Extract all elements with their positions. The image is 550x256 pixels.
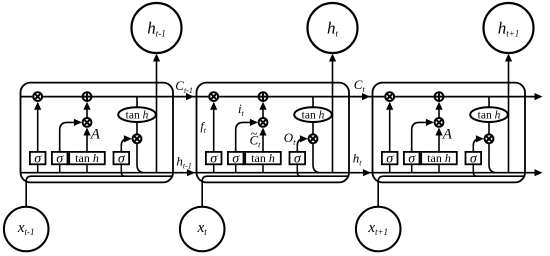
wire: h bus hook down to x bus cell 2 [297,173,301,177]
wire: input gate curve cell 2 [236,122,254,151]
wire: h bus hook down to x bus cell 1 [121,173,125,177]
wire: forget gate riser cell 1 [37,108,39,152]
svg-text:~: ~ [251,127,258,141]
wire: sigma2 stub to bus cell 3 [411,164,413,172]
arrowhead: input gate into input multiply cell 3 [426,119,434,126]
svg-text:Ct: Ct [354,77,366,94]
wire: candidate riser lower cell 1 [86,133,88,152]
wire: tanh ellipse to output multiply cell 1 [136,122,138,134]
arrowhead: h(t) into cell 3 [363,169,371,176]
svg-text:ht: ht [353,151,363,168]
gate box sigma2 (input gate) cell 1 [52,152,68,164]
wire: output multiply down-curve to h line cell 2 [313,143,321,173]
wire: x input bus inside cell 2 [202,176,347,207]
output circle h_t cell 2 [308,3,358,53]
arrowhead: C(t+1) output at right edge [535,93,543,100]
arrowhead: h(t+1) output at right edge [535,169,543,176]
svg-text:σ: σ [232,151,240,166]
arrowhead: candidate into add node cell 2 [259,102,266,110]
svg-text:Ct-1: Ct-1 [175,78,193,95]
wire: output gate curve cell 3 [473,139,480,152]
svg-text:σ: σ [210,151,218,166]
multiply node (input x candidate) cell 3 [435,118,444,127]
gate box sigma2 (input gate) cell 3 [404,152,420,164]
wire: candidate riser lower cell 3 [438,133,440,152]
activation tanh ellipse cell 1 [118,107,156,122]
wire: candidate riser lower cell 2 [262,133,264,152]
gate box sigma1 (forget gate) cell 1 [30,152,46,164]
svg-text:tan h: tan h [251,151,275,165]
arrowhead: candidate into input multiply cell 2 [259,128,266,136]
arrowhead: h riser into top circle cell 1 [153,54,160,62]
wire: sigma3 stub to bus cell 2 [296,164,298,172]
svg-text:σ: σ [34,151,42,166]
add node on C line cell 1 [83,92,92,101]
LSTM cell 1 body box [21,83,174,183]
svg-text:ft: ft [200,119,206,135]
gate box sigma1 (forget gate) cell 2 [206,152,222,164]
wire: h output riser to circle cell 2 [332,61,334,173]
svg-text:tan h: tan h [478,110,501,122]
wire: sigma2 stub to bus cell 1 [59,164,61,172]
wire: tanh ellipse to output multiply cell 2 [312,122,314,134]
wire: output multiply down-curve to h line cell 1 [137,143,145,173]
arrowhead: output gate into output multiply cell 1 [124,135,132,142]
LSTM cell 3 body box [373,83,526,183]
gate box tanh (candidate) cell 2 [245,152,281,164]
arrowhead: candidate into add node cell 1 [83,102,90,110]
gate box sigma3 (output gate) cell 3 [466,152,482,164]
arrowhead: candidate into input multiply cell 3 [435,128,442,136]
arrowhead: C(t-1) into cell 2 [186,93,194,100]
wire: forget gate riser cell 2 [213,108,215,152]
svg-text:tan h: tan h [75,151,99,165]
wire: sigma3 stub to bus cell 1 [120,164,122,172]
svg-text:A: A [90,126,101,142]
multiply node (output gate) cell 1 [133,134,142,143]
wire: C to tanh ellipse cell 2 [312,97,314,108]
svg-text:σ: σ [386,151,394,166]
svg-text:ht-1: ht-1 [176,154,191,171]
wire: candidate riser upper cell 3 [438,108,440,119]
wire: output multiply down-curve to h line cell 3 [489,143,497,173]
input circle x_t+1 cell 3 [356,207,401,252]
gate box sigma3 (output gate) cell 2 [290,152,306,164]
activation tanh ellipse cell 3 [470,107,508,122]
gate box tanh (candidate) cell 3 [421,152,457,164]
arrowhead: forget riser into multiply node cell 3 [386,102,393,110]
input circle x_t-1 cell 1 [4,207,49,252]
svg-text:tan h: tan h [302,110,325,122]
wire: output gate curve cell 2 [297,139,304,152]
arrowhead: output gate into output multiply cell 3 [476,135,484,142]
wire: tanh stub to bus cell 1 [86,164,88,172]
arrowhead: h riser into top circle cell 2 [329,54,336,62]
output circle h_t-1 cell 1 [132,3,182,53]
wire: sigma2 stub to bus cell 2 [235,164,237,172]
arrowhead: C(t) into cell 3 [362,93,370,100]
gate box sigma3 (output gate) cell 1 [114,152,130,164]
multiply node (input x candidate) cell 2 [259,118,268,127]
wire: forget gate riser cell 3 [389,108,391,152]
arrowhead: input gate into input multiply cell 2 [250,119,258,126]
multiply node (forget) on C line cell 3 [385,92,394,101]
multiply node (output gate) cell 3 [485,134,494,143]
svg-text:σ: σ [470,151,478,166]
wire: sigma3 stub to bus cell 3 [472,164,474,172]
arrowhead: candidate into input multiply cell 1 [83,128,90,136]
arrowhead: h riser into top circle cell 3 [505,54,512,62]
arrowhead: h(t-1) into cell 2 [187,169,195,176]
add node on C line cell 3 [435,92,444,101]
svg-text:it: it [238,101,245,118]
wire: candidate riser upper cell 2 [262,108,264,119]
gate box sigma1 (forget gate) cell 3 [382,152,398,164]
wire: x input bus inside cell 3 [378,176,523,207]
wire: hidden state line h (runs through all cells) [21,172,542,174]
svg-text:A: A [442,126,453,142]
wire: input gate curve cell 1 [60,122,78,151]
wire: sigma1 stub to bus cell 2 [213,164,215,172]
LSTM cell 2 body box [197,83,350,183]
svg-text:σ: σ [408,151,416,166]
arrowhead: forget riser into multiply node cell 2 [210,102,217,110]
wire: output gate curve cell 1 [121,139,128,152]
multiply node (forget) on C line cell 2 [209,92,218,101]
arrowhead: forget riser into multiply node cell 1 [34,102,41,110]
input circle x_t cell 2 [180,207,225,252]
svg-text:tan h: tan h [427,151,451,165]
wire: input gate curve cell 3 [412,122,430,151]
wire: h output riser to circle cell 1 [156,61,158,173]
wire: tanh ellipse to output multiply cell 3 [488,122,490,134]
wire: h output riser to circle cell 3 [508,61,510,173]
multiply node (input x candidate) cell 1 [83,118,92,127]
svg-text:σ: σ [118,151,126,166]
wire: tanh stub to bus cell 2 [262,164,264,172]
wire: sigma1 stub to bus cell 1 [37,164,39,172]
activation tanh ellipse cell 2 [294,107,332,122]
wire: cell state line C (runs through all cells) [21,96,542,98]
add node on C line cell 2 [259,92,268,101]
wire: h bus hook down to x bus cell 3 [473,173,477,177]
arrowhead: candidate into add node cell 3 [435,102,442,110]
multiply node (forget) on C line cell 1 [33,92,42,101]
arrowhead: output gate into output multiply cell 2 [300,135,308,142]
wire: candidate riser upper cell 1 [86,108,88,119]
gate box sigma2 (input gate) cell 2 [228,152,244,164]
svg-text:σ: σ [56,151,64,166]
gate box tanh (candidate) cell 1 [69,152,105,164]
output circle h_t+1 cell 3 [484,3,534,53]
arrowhead: input gate into input multiply cell 1 [74,119,82,126]
svg-text:tan h: tan h [126,110,149,122]
wire: tanh stub to bus cell 3 [438,164,440,172]
svg-text:σ: σ [294,151,302,166]
wire: x input bus inside cell 1 [26,176,171,207]
wire: C to tanh ellipse cell 1 [136,97,138,108]
wire: C to tanh ellipse cell 3 [488,97,490,108]
multiply node (output gate) cell 2 [309,134,318,143]
svg-text:Ot: Ot [284,130,296,147]
wire: sigma1 stub to bus cell 3 [389,164,391,172]
